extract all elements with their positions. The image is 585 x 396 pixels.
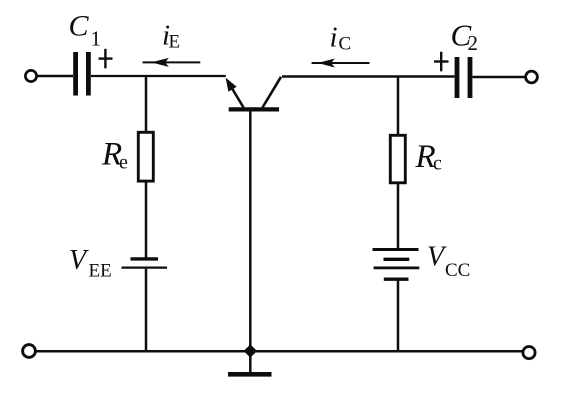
current arrow iE [143, 58, 201, 67]
label Re [101, 137, 128, 174]
wire collector to C2 [282, 75, 455, 78]
wire Re branch upper [145, 76, 148, 131]
wire base to bottom rail [249, 111, 252, 351]
emitter lead with arrow [232, 88, 244, 108]
svg-text:E: E [169, 32, 181, 53]
label iC [330, 22, 352, 55]
svg-text:EE: EE [89, 261, 112, 282]
terminal TR (output) [526, 71, 538, 83]
svg-text:c: c [433, 153, 442, 175]
collector lead [263, 77, 282, 108]
bottom rail wire [36, 350, 523, 353]
transistor Q1 (NPN, common-base) [226, 77, 281, 110]
label C2 value [451, 18, 479, 56]
svg-text:e: e [119, 152, 128, 174]
label VCC [427, 242, 470, 282]
wire Rc branch upper [397, 77, 400, 135]
wire Rc to battery VCC [397, 183, 400, 248]
junction node at base/bottom rail [244, 344, 257, 357]
ground [228, 351, 272, 374]
base bar [229, 107, 279, 111]
label iE [162, 20, 180, 53]
wire C2 to TR terminal [473, 76, 526, 79]
label Rc [415, 139, 443, 175]
svg-text:2: 2 [468, 31, 479, 55]
terminal BR [523, 347, 535, 359]
svg-text:1: 1 [91, 27, 102, 51]
svg-text:i: i [330, 22, 338, 54]
label C1 value [69, 10, 102, 51]
polarity plus of C2 [434, 52, 449, 72]
current arrow iC [312, 59, 370, 68]
svg-text:CC: CC [445, 260, 470, 281]
wire C1 to emitter node [91, 75, 226, 77]
polarity plus of C1 [99, 49, 113, 69]
svg-text:C: C [69, 10, 90, 43]
svg-text:V: V [427, 242, 447, 273]
resistor Rc [390, 135, 405, 183]
terminal BL [23, 345, 36, 358]
capacitor C2 [457, 57, 470, 98]
terminal TL (input) [25, 70, 36, 81]
svg-text:C: C [339, 34, 352, 55]
capacitor C1 [76, 52, 89, 96]
label VEE [69, 245, 112, 282]
wire VCC to bottom rail [397, 281, 400, 352]
wire TL terminal to C1 [37, 75, 73, 78]
wire VEE to bottom rail [145, 269, 148, 351]
resistor Re [138, 132, 153, 181]
battery VCC (two cells) [373, 250, 420, 280]
svg-text:V: V [69, 245, 89, 276]
battery VEE [122, 259, 168, 268]
wire Re to battery VEE [145, 181, 148, 258]
